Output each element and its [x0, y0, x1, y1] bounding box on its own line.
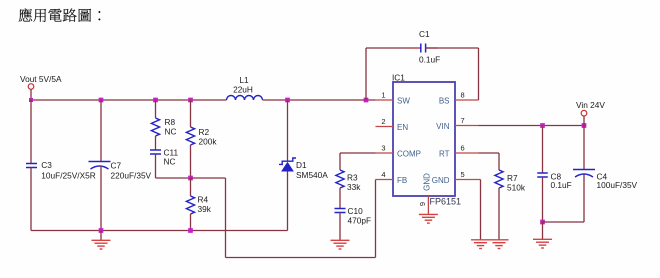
svg-text:200k: 200k — [199, 137, 218, 147]
svg-text:D1: D1 — [296, 160, 307, 170]
ground GND C10 — [331, 239, 350, 241]
svg-text:2: 2 — [381, 117, 385, 126]
wire C4 to C8 bottom — [543, 221, 585, 223]
node junction D1 branch — [285, 98, 290, 103]
node junction Vin terminal — [582, 123, 587, 128]
svg-text:7: 7 — [461, 116, 465, 125]
capacitor C11 — [150, 149, 161, 151]
node junction C3 branch — [29, 98, 33, 102]
resistor R7 — [495, 170, 503, 188]
svg-text:10uF/25V/X5R: 10uF/25V/X5R — [41, 171, 95, 181]
wire FB riser to pin 4 — [375, 180, 377, 258]
wire Vin stub — [583, 116, 585, 126]
capacitor C3 — [26, 163, 37, 165]
inductor L1 — [227, 96, 263, 100]
resistor R8 — [151, 118, 159, 136]
node Vout terminal — [28, 84, 34, 90]
diode D1 SM540A — [279, 158, 296, 164]
wire C1 left leg — [365, 48, 367, 100]
wire C8 lead top — [542, 126, 544, 174]
svg-text:R7: R7 — [507, 173, 518, 183]
node junction C7 branch — [99, 98, 104, 103]
wire C3 branch lower — [30, 168, 32, 231]
svg-text:NC: NC — [165, 127, 177, 137]
svg-text:SW: SW — [397, 97, 410, 106]
capacitor C4 — [573, 169, 595, 171]
ground GND C8 C4 — [533, 238, 552, 240]
wire RT to R7 — [479, 152, 500, 154]
svg-text:6: 6 — [461, 144, 465, 153]
capacitor C10 — [335, 208, 346, 210]
wire C8 ground stem — [542, 222, 544, 239]
pin 1 SW stub — [376, 99, 394, 101]
capacitor C7 — [89, 161, 111, 163]
wire bottom rail — [31, 230, 288, 232]
wire R2 lead bottom — [190, 145, 192, 178]
node junction C1 branch — [364, 98, 369, 103]
svg-text:3: 3 — [381, 144, 385, 153]
svg-text:C1: C1 — [419, 29, 430, 39]
svg-text:4: 4 — [381, 170, 385, 179]
wire R8 to C11 — [155, 136, 157, 150]
pin 3 COMP stub — [376, 152, 394, 154]
svg-text:8: 8 — [461, 91, 465, 100]
wire C7 branch upper — [100, 100, 102, 162]
svg-text:C10: C10 — [348, 206, 364, 216]
svg-text:1: 1 — [381, 91, 385, 100]
ground GND pin9 pad — [419, 213, 438, 215]
pin 5 GND stub — [455, 179, 481, 181]
svg-text:R3: R3 — [347, 173, 358, 183]
ground GND pin5 — [471, 239, 490, 241]
svg-text:Vout 5V/5A: Vout 5V/5A — [20, 74, 62, 84]
node junction R4 bottom — [188, 228, 193, 233]
svg-text:IC1: IC1 — [392, 73, 405, 83]
resistor R2 — [186, 127, 194, 145]
wire COMP to R3 — [340, 152, 376, 154]
svg-text:R4: R4 — [198, 195, 209, 205]
pin 7 VIN stub — [455, 125, 479, 127]
ground GND R7 — [490, 239, 509, 241]
svg-text:220uF/35V: 220uF/35V — [111, 171, 152, 181]
pin 6 RT stub — [455, 152, 479, 154]
node junction R2 branch — [188, 98, 193, 103]
ground GND1 — [100, 231, 102, 241]
svg-text:C7: C7 — [111, 161, 122, 171]
wire C1 right leg to BS — [426, 47, 479, 49]
wire R4 lead bottom — [190, 214, 192, 231]
svg-text:100uF/35V: 100uF/35V — [597, 180, 638, 190]
pin 9 stub — [427, 196, 429, 214]
svg-text:510k: 510k — [507, 183, 526, 193]
wire FB bottom run — [226, 257, 376, 259]
node FB divider junction — [188, 176, 193, 181]
capacitor C8 — [537, 172, 548, 174]
capacitor C1 — [420, 44, 422, 53]
svg-text:BS: BS — [439, 97, 450, 106]
wire C4 lead top — [583, 126, 585, 170]
wire D1 anode to bottom rail — [287, 172, 289, 231]
svg-text:0.1uF: 0.1uF — [419, 55, 440, 65]
wire C8 lead bottom — [542, 177, 544, 222]
svg-text:FP6151: FP6151 — [430, 197, 462, 207]
wire VIN rail — [479, 125, 585, 127]
pin 4 FB stub — [376, 179, 394, 181]
IC IC1 FP6151 body — [393, 82, 455, 196]
svg-text:COMP: COMP — [397, 150, 421, 159]
pin 2 EN stub — [376, 126, 394, 128]
node junction ground bottom rail — [99, 228, 104, 233]
svg-text:9: 9 — [418, 202, 427, 206]
svg-text:470pF: 470pF — [348, 216, 372, 226]
svg-text:RT: RT — [439, 150, 450, 159]
svg-text:GND: GND — [423, 173, 432, 191]
wire C3 branch upper — [30, 100, 32, 164]
wire top rail right of L1 — [263, 99, 376, 101]
wire R7 lead bottom — [498, 188, 500, 240]
svg-text:EN: EN — [397, 123, 408, 132]
svg-text:VIN: VIN — [436, 122, 450, 131]
svg-text:0.1uF: 0.1uF — [551, 180, 572, 190]
svg-text:33k: 33k — [347, 182, 361, 192]
svg-text:22uH: 22uH — [233, 85, 253, 95]
pin 8 BS stub — [455, 99, 479, 101]
svg-text:R2: R2 — [199, 127, 210, 137]
node junction R8 branch — [153, 98, 158, 103]
svg-text:5: 5 — [461, 170, 465, 179]
node junction C8 branch — [540, 123, 545, 128]
wire top rail left — [31, 99, 227, 101]
svg-text:SM540A: SM540A — [296, 170, 328, 180]
wire FB node to corner — [191, 177, 226, 179]
svg-text:R8: R8 — [165, 117, 176, 127]
title 應用電路圖: — [19, 8, 101, 21]
node junction C8 C4 ground — [540, 220, 545, 225]
svg-text:NC: NC — [164, 157, 176, 167]
wire C10 to ground — [339, 213, 341, 241]
svg-text:Vin 24V: Vin 24V — [576, 100, 605, 110]
wire C11 bottom to FB node — [155, 154, 157, 178]
resistor R3 — [336, 170, 344, 188]
svg-text:FB: FB — [397, 176, 407, 185]
svg-text:39k: 39k — [198, 204, 212, 214]
wire R3 to C10 — [339, 188, 341, 209]
wire Vout stub — [30, 89, 32, 100]
wire D1 cathode to SW rail — [287, 100, 289, 161]
svg-text:L1: L1 — [239, 75, 249, 85]
svg-text:C3: C3 — [41, 160, 52, 170]
wire C7 branch lower — [100, 166, 102, 231]
resistor R4 — [190, 178, 192, 196]
wire R8 lead top — [155, 100, 157, 118]
node Vin terminal — [581, 110, 587, 116]
wire C4 lead bottom — [583, 175, 585, 223]
svg-text:GND: GND — [432, 176, 450, 185]
wire R2 lead top — [190, 100, 192, 127]
wire GND pin5 down — [480, 180, 482, 240]
